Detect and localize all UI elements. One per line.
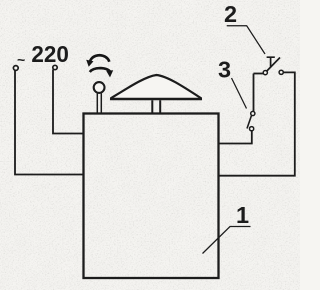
svg-text:220: 220 (31, 41, 69, 67)
svg-text:3: 3 (218, 57, 231, 83)
svg-text:~: ~ (17, 52, 25, 68)
svg-text:1: 1 (236, 202, 249, 228)
svg-text:2: 2 (224, 1, 237, 27)
